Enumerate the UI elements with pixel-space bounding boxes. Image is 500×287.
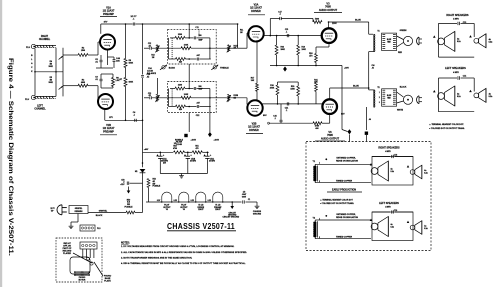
svg-text:BALANCE: BALANCE (147, 72, 157, 75)
svg-text:500K: 500K (49, 66, 54, 68)
svg-text:UNTINNED COPPER,: UNTINNED COPPER, (336, 157, 356, 159)
svg-text:4700: 4700 (173, 147, 177, 150)
svg-text:BLUE: BLUE (387, 95, 391, 97)
svg-text:470: 470 (196, 147, 199, 150)
svg-text:Figure 4 — Schematic Diagram o: Figure 4 — Schematic Diagram of Chassis … (7, 58, 13, 256)
svg-text:40 MFD: 40 MFD (209, 160, 216, 163)
svg-text:3300: 3300 (178, 85, 182, 87)
svg-text:820: 820 (179, 109, 182, 111)
svg-text:PREAMP: PREAMP (103, 13, 114, 16)
svg-text:GREEN: GREEN (400, 30, 407, 32)
svg-text:TINNED COPPER: TINNED COPPER (336, 181, 353, 183)
svg-text:CIRCUIT GROUND: CIRCUIT GROUND (223, 216, 240, 218)
svg-text:C1: C1 (248, 199, 250, 201)
svg-text:FUSIBLE: FUSIBLE (153, 186, 161, 188)
svg-text:12AX7: 12AX7 (215, 208, 220, 211)
svg-text:.1: .1 (286, 110, 288, 112)
svg-text:MOTOR: MOTOR (79, 280, 86, 282)
svg-text:PLU: PLU (25, 99, 30, 101)
svg-text:PREAMP: PREAMP (103, 130, 114, 133)
svg-text:1: 1 (319, 218, 320, 220)
svg-text:V3: V3 (166, 209, 168, 211)
svg-text:AUDIO OUTPUT: AUDIO OUTPUT (321, 138, 340, 141)
svg-text:2: 2 (319, 181, 320, 183)
svg-text:1: 1 (379, 92, 380, 94)
svg-text:RIGHT: RIGHT (41, 36, 49, 38)
svg-text:390K: 390K (270, 87, 275, 89)
svg-text:2: 2 (319, 237, 320, 239)
svg-text:FUSIBLE: FUSIBLE (125, 207, 134, 209)
svg-text:7695: 7695 (325, 5, 331, 9)
svg-text:LEFT: LEFT (37, 106, 43, 108)
svg-text:4. R50 & THERMAL RESISTOR MUST: 4. R50 & THERMAL RESISTOR MUST BE PHYSIC… (121, 262, 246, 265)
svg-text:GRN/YEL: GRN/YEL (99, 210, 108, 212)
svg-text:TREBLE: TREBLE (220, 67, 229, 69)
svg-text:2: 2 (379, 97, 380, 99)
svg-text:RIGHT SPEAKERS: RIGHT SPEAKERS (446, 14, 469, 17)
svg-text:● COLORED DOT ON OUTPUT TRANS.: ● COLORED DOT ON OUTPUT TRANS. (429, 127, 465, 130)
svg-text:6800: 6800 (81, 82, 85, 84)
svg-text:BLUE: BLUE (387, 39, 391, 41)
svg-text:RED/BRN: RED/BRN (75, 211, 83, 213)
svg-text:BASS: BASS (169, 66, 176, 69)
svg-text:V6: V6 (183, 209, 185, 211)
svg-text:.02: .02 (372, 68, 374, 70)
svg-text:100K: 100K (290, 88, 295, 90)
svg-text:EARLY PRODUCTION: EARLY PRODUCTION (332, 189, 356, 192)
svg-text:.1: .1 (279, 14, 281, 16)
svg-text:● COLORED DOT ON OUTPUT TRANS.: ● COLORED DOT ON OUTPUT TRANS. (320, 202, 354, 205)
svg-text:1: 1 (319, 163, 320, 165)
svg-text:400: 400 (315, 127, 318, 130)
svg-text:GROUND: GROUND (253, 213, 262, 215)
svg-text:.1: .1 (274, 118, 276, 120)
svg-text:7695: 7695 (327, 133, 333, 137)
svg-text:RIDGE ON INSULATION: RIDGE ON INSULATION (336, 159, 358, 162)
svg-text:CHANNEL: CHANNEL (39, 38, 51, 41)
svg-text:BLUE: BLUE (355, 20, 361, 22)
svg-text:BLACK: BLACK (400, 85, 407, 88)
svg-text:BLUE: BLUE (353, 86, 359, 88)
svg-text:500K: 500K (49, 82, 54, 84)
svg-text:▲ TERMINAL NEAREST COLOR DOT: ▲ TERMINAL NEAREST COLOR DOT (320, 199, 354, 202)
svg-text:DRIVER: DRIVER (251, 10, 261, 13)
svg-text:C11: C11 (195, 27, 198, 29)
svg-text:RED: RED (398, 52, 403, 54)
svg-text:.047: .047 (196, 102, 200, 105)
svg-text:R7: R7 (120, 79, 122, 81)
svg-text:PLU: PLU (26, 47, 31, 49)
svg-text:4 MFD: 4 MFD (453, 17, 459, 20)
svg-text:40 MFD: 40 MFD (190, 160, 197, 163)
svg-text:12AX7: 12AX7 (198, 208, 203, 211)
svg-text:AUDIO OUTPUT: AUDIO OUTPUT (319, 9, 338, 12)
svg-text:+100V: +100V (214, 140, 220, 142)
svg-text:.04: .04 (369, 118, 371, 121)
svg-text:+80V: +80V (344, 68, 350, 70)
svg-text:CHANNEL: CHANNEL (34, 108, 46, 111)
svg-text:DRIVER: DRIVER (249, 129, 259, 132)
svg-text:130V: 130V (332, 23, 337, 25)
svg-text:100K: 100K (184, 94, 189, 96)
svg-text:PLAYER: PLAYER (63, 252, 71, 255)
svg-text:M1: M1 (135, 171, 138, 173)
svg-text:+40V: +40V (144, 148, 149, 151)
svg-text:1/2 4M: 1/2 4M (176, 143, 182, 146)
svg-text:CHASSIS V2507-11: CHASSIS V2507-11 (167, 222, 235, 231)
svg-text:RIDGE ON INSULATION: RIDGE ON INSULATION (336, 216, 358, 219)
svg-text:4 MFD: 4 MFD (385, 206, 391, 209)
svg-text:UNTINNED COPPER,: UNTINNED COPPER, (336, 214, 356, 216)
svg-text:LEFT SPEAKERS: LEFT SPEAKERS (379, 202, 399, 205)
svg-text:1500: 1500 (81, 50, 85, 52)
svg-text:BLACK: BLACK (96, 214, 103, 217)
svg-text:1. DC VOLTAGES MEASURED FROM C: 1. DC VOLTAGES MEASURED FROM CIRCUIT GRO… (121, 245, 235, 248)
svg-text:RIGHT SPEAKERS: RIGHT SPEAKERS (378, 147, 400, 150)
svg-text:.02: .02 (147, 76, 150, 78)
svg-text:.1: .1 (286, 32, 288, 34)
svg-text:3. BOTH TRANSFORMER WINDINGS A: 3. BOTH TRANSFORMER WINDINGS ARE IN THE … (121, 256, 193, 259)
svg-text:4 MFD: 4 MFD (385, 150, 391, 153)
svg-text:680K: 680K (129, 62, 134, 64)
svg-text:33K: 33K (116, 60, 120, 62)
svg-text:3: 3 (379, 102, 380, 104)
svg-text:5600: 5600 (315, 18, 319, 20)
svg-text:C22: C22 (196, 115, 199, 117)
svg-text:GRN/YEL: GRN/YEL (75, 208, 83, 210)
svg-text:PL3: PL3 (97, 228, 100, 230)
svg-text:TINNED COPPER: TINNED COPPER (336, 237, 353, 239)
svg-text:.02: .02 (148, 46, 151, 48)
svg-text:100K: 100K (302, 49, 307, 51)
svg-text:LEFT SPEAKERS: LEFT SPEAKERS (445, 67, 466, 70)
svg-text:+100V: +100V (191, 140, 197, 142)
svg-text:.047: .047 (196, 54, 200, 57)
svg-text:3300: 3300 (178, 34, 182, 36)
svg-text:PLATE: PLATE (104, 279, 111, 282)
svg-text:100K: 100K (184, 44, 189, 46)
svg-text:▲ TERMINAL NEAREST COLOR DOT.: ▲ TERMINAL NEAREST COLOR DOT. (429, 123, 464, 126)
svg-text:2. ALL CAPACITANCE VALUES IN M: 2. ALL CAPACITANCE VALUES IN MFD & ALL R… (121, 251, 247, 254)
svg-text:WHITE: WHITE (397, 110, 404, 112)
svg-text:820: 820 (179, 61, 182, 63)
svg-text:.02: .02 (148, 95, 151, 97)
svg-text:470: 470 (309, 54, 312, 57)
svg-text:4 MFD: 4 MFD (453, 71, 459, 74)
svg-text:390K: 390K (281, 49, 286, 51)
svg-text:680K: 680K (129, 82, 134, 84)
